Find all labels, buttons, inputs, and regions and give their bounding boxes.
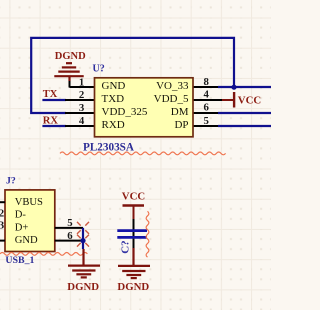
svg-text:6: 6 [67,230,73,242]
wire RX [42,125,66,127]
svg-text:DGND: DGND [117,281,149,293]
pin 3 of U? (VDD_325) [65,112,95,114]
pin 5 of U? (DP) [193,125,218,127]
ERC error squiggle at C? [146,211,149,257]
svg-text:DP: DP [174,119,188,131]
svg-text:5: 5 [204,115,209,127]
capacitor C? pin bottom [133,239,135,248]
svg-text:USB_1: USB_1 [5,255,34,266]
junction on net VDD [231,85,236,90]
pin 2 of U? (TXD) [65,99,95,101]
svg-text:5: 5 [67,217,72,229]
power port DGND top (flipped symbol) [54,63,83,81]
ERC error squiggle under J? [0,252,87,255]
wire pin5 to ground [82,228,84,249]
wire TX [42,99,66,101]
connector J? body USB_1 [5,190,55,252]
svg-text:6: 6 [204,102,210,114]
pin 4 of J? (GND, cropped at edge) [0,240,5,242]
svg-text:GND: GND [102,80,126,92]
svg-text:DGND: DGND [67,281,99,293]
pin 4 of U? (VDD_5) [193,99,222,101]
svg-text:TXD: TXD [102,93,125,105]
svg-text:4: 4 [204,88,210,100]
svg-text:VO_33: VO_33 [156,80,189,92]
svg-text:VCC: VCC [122,191,145,203]
pin 6 of U? (DM) [193,112,218,114]
svg-text:3: 3 [0,220,5,232]
svg-text:VCC: VCC [238,94,261,106]
pin 4 of U? (RXD) [65,125,95,127]
pin 5 of J? [55,227,83,229]
svg-text:C?: C? [120,240,132,253]
junction at pin 6 of J? [80,238,85,243]
svg-text:RXD: RXD [102,119,125,131]
power port VCC mid [122,191,145,220]
svg-text:RX: RX [43,115,59,126]
no-ERC marker X at pin5 [77,222,89,234]
power port DGND bottom-mid [118,248,150,278]
pin 1 of J? (VBUS, cropped at edge) [0,201,5,203]
wire DM to edge [218,112,271,114]
wire net VDD (pin8 VO_33 to pin3 VDD_325) [31,38,234,113]
svg-text:D+: D+ [15,222,29,233]
wire DP to edge [218,125,271,127]
pin 1 of U? (GND) [70,86,95,88]
pin 8 of U? (VO_33) [193,86,218,88]
capacitor C? plates [117,229,147,232]
svg-text:2: 2 [79,89,84,101]
wire ground stub to pin1 [69,81,71,88]
svg-text:3: 3 [79,102,85,114]
svg-text:VDD_325: VDD_325 [102,106,148,118]
power port DGND bottom-left [68,249,100,277]
svg-text:2: 2 [0,207,4,219]
svg-text:J?: J? [6,175,16,186]
svg-text:TX: TX [43,89,58,100]
svg-text:8: 8 [204,76,210,88]
svg-text:D-: D- [15,210,27,221]
pin 6 of J? [55,240,83,242]
svg-text:GND: GND [15,235,38,246]
svg-text:4: 4 [79,115,85,127]
wire net VDD right segment to edge [218,86,271,88]
svg-text:DGND: DGND [55,51,86,62]
ERC error squiggle under U? [60,152,226,155]
IC U? body PL2303SA [95,78,194,137]
power port VCC right [222,92,261,108]
no-ERC marker X at pin6 [77,235,89,247]
svg-text:VDD_5: VDD_5 [154,93,189,105]
svg-text:VBUS: VBUS [15,197,43,208]
svg-text:DM: DM [171,106,189,118]
svg-text:1: 1 [79,76,84,88]
svg-text:U?: U? [93,63,105,74]
capacitor C? pin top [133,219,135,236]
